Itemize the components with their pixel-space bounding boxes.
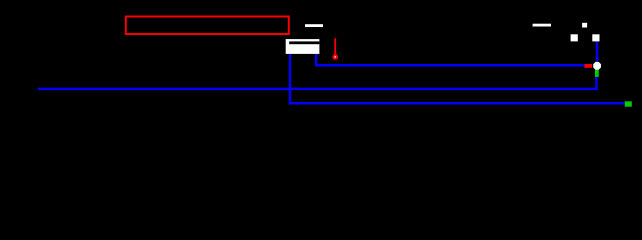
probe pin head center dot [334,56,336,58]
wire: long bottom-left horizontal + riser to via [38,75,596,89]
selection rectangle (red outline) [126,17,289,35]
component U1 slot [289,41,319,44]
pad small top (white square) [582,23,587,28]
probe pin stem (red) [334,38,336,55]
via node (white octagon) [593,62,601,70]
wire segment highlighted red [585,64,593,68]
probe pin head (red circle) [332,54,338,60]
silkscreen bar label 1 [305,24,323,27]
silkscreen bar label 2 [533,24,551,27]
pad right (white square) [592,34,599,41]
pad left (white square) [571,34,578,41]
wire: U1 pin2 vertical + mid horizontal [316,54,584,65]
terminal pad (green) [625,101,632,106]
component U1 body [286,39,320,54]
wire segment highlighted green [595,70,599,77]
wire: U1 pin1 vertical + bottom horizontal to terminal [290,54,628,103]
wire: via up to pad [596,41,599,62]
